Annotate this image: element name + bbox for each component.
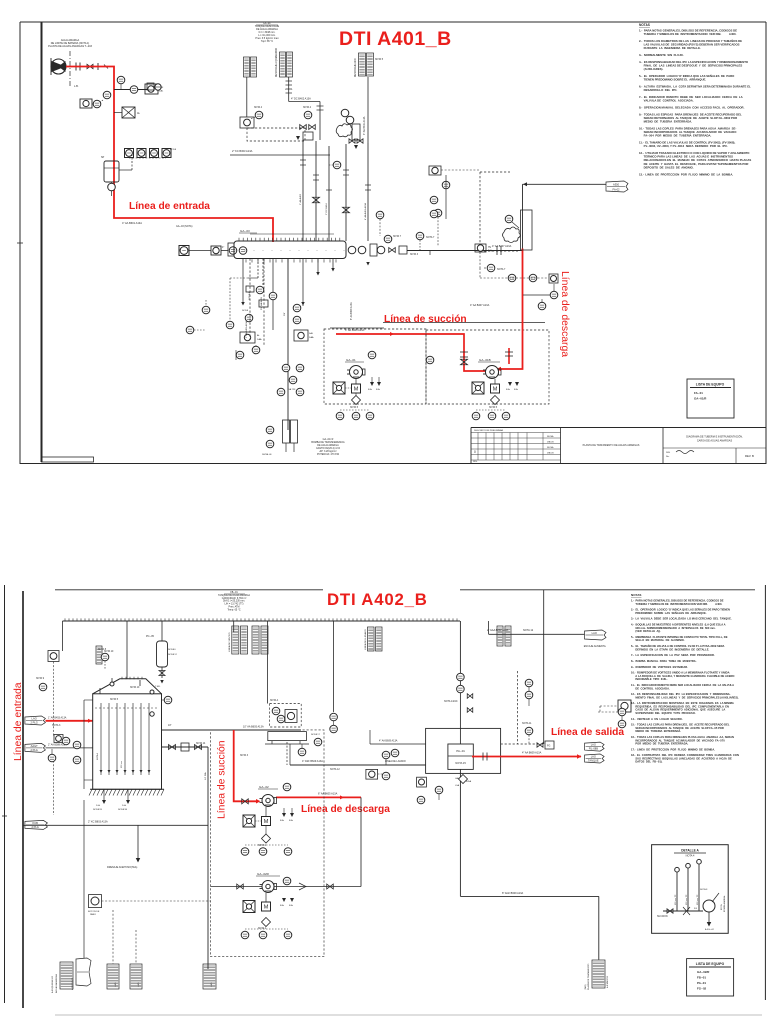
- svg-text:A ESQUEMA 102: A ESQUEMA 102: [51, 975, 54, 993]
- instrument HV: [475, 244, 486, 252]
- wire drop 3: [272, 259, 274, 331]
- wire red entrada tank: [46, 720, 93, 722]
- instrument NOTA11: [525, 727, 533, 735]
- svg-text:(VER DETALLE A)).: (VER DETALLE A)).: [631, 629, 661, 633]
- instrument NOTA7 vessel: [384, 235, 392, 243]
- instrument square row: [125, 149, 134, 158]
- svg-text:NOTA 93: NOTA 93: [93, 808, 103, 811]
- svg-text:NOTA 17: NOTA 17: [311, 733, 321, 736]
- svg-text:PLANTA DE TRATAMIENTO DE AGUAS: PLANTA DE TRATAMIENTO DE AGUAS AMARGAS: [583, 444, 640, 447]
- instrument LIT: [62, 737, 70, 745]
- svg-text:NOTA 8: NOTA 8: [98, 648, 107, 651]
- extra instrument a: [202, 306, 210, 314]
- wire tagC down: [367, 77, 369, 143]
- svg-text:GA--02R: GA--02R: [257, 872, 270, 876]
- sample station boxes: [147, 83, 154, 90]
- svg-text:LISTA DE EQUIPO: LISTA DE EQUIPO: [696, 962, 725, 966]
- title block page 1: [471, 427, 766, 429]
- package PA-01 outer: [426, 728, 501, 773]
- svg-text:GA--02/R: GA--02/R: [697, 970, 710, 974]
- instrument mid b: [293, 304, 301, 312]
- instrument under PA01: [417, 777, 427, 787]
- svg-text:2 PLG: 2 PLG: [30, 748, 37, 752]
- box mid b: [294, 330, 308, 341]
- svg-text:DTI A401_B: DTI A401_B: [339, 28, 452, 50]
- svg-text:GA--03: GA--03: [240, 229, 250, 233]
- svg-text:DAA: DAA: [309, 336, 314, 339]
- svg-text:M: M: [354, 387, 359, 393]
- svg-text:3.- LA VALVULA DEBE SER LO: 3.- LA VALVULA DEBE SER LOCALIZADA LO MA…: [631, 617, 732, 621]
- seal pot SP-01: [104, 161, 119, 182]
- suction GA-02R: [211, 886, 263, 888]
- svg-text:GA--03 (NOTA): GA--03 (NOTA): [176, 225, 193, 228]
- svg-text:6" AA B406 A13A: 6" AA B406 A13A: [345, 329, 365, 332]
- instrument NOTA8: [101, 653, 109, 661]
- svg-text:POTENCIA: 473 KW: POTENCIA: 473 KW: [317, 453, 340, 456]
- note circle mid: [416, 232, 424, 240]
- control valve station right: [521, 210, 533, 250]
- svg-text:Temp: 65 °C: Temp: 65 °C: [227, 608, 240, 611]
- svg-text:LINEA DE LLENADO: LINEA DE LLENADO: [364, 629, 367, 650]
- wire tagA down: [246, 77, 248, 117]
- inst square right edge: [618, 700, 631, 712]
- left relief instruments: [429, 166, 441, 175]
- wash line: [290, 764, 426, 766]
- extra mid dashes: [230, 277, 248, 279]
- flag connector desfogue: [606, 181, 628, 192]
- svg-text:NOTA: NOTA: [242, 309, 248, 312]
- relief cloud station: [341, 109, 349, 117]
- svg-text:6" AA B406 A13A: 6" AA B406 A13A: [350, 302, 353, 320]
- extra instrument b: [256, 286, 264, 294]
- svg-text:(TAD): (TAD): [584, 984, 587, 990]
- dashed box GA-01B: [426, 330, 549, 404]
- svg-text:NOTA 5: NOTA 5: [350, 406, 359, 409]
- svg-text:GA--01B: GA--01B: [479, 358, 491, 362]
- vessel right section: [348, 246, 356, 254]
- svg-text:MIENTO FINAL DE LAS LINEAS: MIENTO FINAL DE LAS LINEAS Y DE SERVICIO…: [631, 695, 739, 699]
- wire header drop red tee: [233, 621, 235, 632]
- wire PA01 center v: [459, 671, 461, 744]
- control valve station a: [300, 125, 307, 130]
- svg-text:GA 72F: GA 72F: [288, 388, 296, 391]
- svg-text:DESFOGUE A200: DESFOGUE A200: [354, 58, 357, 77]
- svg-text:DESCRIPCION PRELIMINAR: DESCRIPCION PRELIMINAR: [474, 429, 504, 432]
- svg-text:2" DC B404: 2" DC B404: [326, 203, 328, 215]
- extra dashes p2: [286, 742, 288, 765]
- svg-text:LAO: LAO: [210, 982, 213, 987]
- package PA-01 inner: [448, 744, 473, 769]
- page 2 border frame: [4, 585, 6, 1003]
- diamond GA-01: [352, 396, 361, 405]
- wire seal pot to line: [119, 169, 132, 171]
- instrument NOTA4 b: [304, 111, 312, 119]
- red stub pump up: [508, 348, 510, 364]
- svg-text:B.A.: B.A.: [368, 388, 373, 391]
- svg-text:B.A.: B.A.: [280, 819, 285, 822]
- svg-text:No.: No.: [666, 456, 670, 458]
- svg-text:Top= 65 °C: Top= 65 °C: [261, 40, 273, 43]
- flag inlet 2: [25, 743, 46, 752]
- flag salida 1: [585, 742, 605, 751]
- svg-text:NOTA 5: NOTA 5: [375, 58, 384, 61]
- main suction header: [407, 250, 523, 252]
- instrument above PA01: [457, 673, 465, 681]
- instrument PI pair top: [330, 713, 338, 721]
- svg-text:2" KC B803 A13A: 2" KC B803 A13A: [88, 821, 108, 824]
- svg-text:NOTA 13/AC: NOTA 13/AC: [444, 700, 458, 703]
- motor GA-02: [262, 817, 271, 826]
- svg-text:NOTA 12: NOTA 12: [330, 768, 340, 771]
- svg-text:DESFOGUE A QUEMADOR: DESFOGUE A QUEMADOR: [275, 48, 278, 77]
- svg-text:NOTA 4: NOTA 4: [96, 752, 99, 760]
- svg-text:2 PLG: 2 PLG: [30, 721, 37, 725]
- box station left: [240, 117, 254, 128]
- svg-text:4" AA B401 A13A: 4" AA B401 A13A: [364, 203, 367, 220]
- flag salida 2: [585, 754, 605, 763]
- support bracket: [268, 732, 307, 741]
- wire drop 1: [242, 259, 244, 301]
- crossed box GA-01: [333, 382, 345, 394]
- svg-text:T.SR.: T.SR.: [155, 686, 161, 688]
- svg-text:DEFINIDO EN LA ETAPA DE I: DEFINIDO EN LA ETAPA DE INGENIERIA DE DE…: [631, 647, 709, 651]
- boton de paro: [89, 895, 102, 908]
- motor GA-01B: [491, 384, 500, 393]
- svg-text:FECHA: FECHA: [547, 446, 554, 449]
- svg-text:PARO: PARO: [90, 913, 96, 916]
- tank FB-01 ground hatch: [90, 788, 164, 790]
- motor GA-02R: [262, 902, 271, 911]
- svg-text:NOTA 5: NOTA 5: [489, 406, 498, 409]
- svg-text:1" AA B453 A13A: 1" AA B453 A13A: [48, 717, 67, 720]
- arrows GA-01 drains: [370, 382, 374, 386]
- bottom flag a: [107, 964, 119, 989]
- svg-text:FA-02: FA-02: [613, 188, 620, 192]
- svg-text:DETALLE A: DETALLE A: [681, 849, 699, 853]
- wire drop flag to valve: [522, 184, 524, 248]
- vertical pipe bundle to vessel: [302, 140, 304, 241]
- svg-text:L.B.: L.B.: [74, 84, 79, 88]
- svg-text:A.B MW-P02: A.B MW-P02: [606, 975, 609, 988]
- svg-text:NOTA 3: NOTA 3: [52, 724, 61, 727]
- svg-text:PC--05: PC--05: [146, 635, 155, 638]
- svg-text:900 mm: 900 mm: [121, 760, 123, 768]
- svg-text:BOMBA MANUAL: BOMBA MANUAL: [723, 895, 726, 912]
- instrument NOTA7 right: [487, 264, 495, 272]
- instrument trail 3: [145, 84, 158, 94]
- svg-text:2" KC B303 A13A: 2" KC B303 A13A: [232, 149, 253, 153]
- svg-text:LSA: LSA: [455, 784, 460, 787]
- dashed box GA-02: [211, 730, 325, 957]
- bottom flag c: [203, 964, 216, 989]
- instrument small pair: [48, 754, 56, 762]
- svg-text:NOTA 15: NOTA 15: [455, 761, 466, 765]
- extra circles bottom: [266, 426, 274, 434]
- wire header left drop: [62, 621, 64, 651]
- wire tank drain down: [83, 800, 85, 958]
- svg-text:PLANTA DE TRATAMIENTO: PLANTA DE TRATAMIENTO: [587, 963, 590, 990]
- tag label C: [359, 53, 366, 76]
- svg-text:DAL: DAL: [488, 250, 493, 253]
- svg-text:LAO: LAO: [591, 755, 596, 759]
- svg-text:M: M: [264, 819, 269, 825]
- FG small station: [537, 743, 543, 748]
- wire header drop tank: [126, 621, 128, 679]
- svg-text:TIENEN PREDOMINIO SOBRE EL AR: TIENEN PREDOMINIO SOBRE EL ARRANQUE.: [639, 78, 706, 82]
- tank drain arrows: [103, 789, 105, 800]
- wire PA01 outlet down: [460, 895, 598, 897]
- svg-text:NOTA 1B: NOTA 1B: [118, 808, 128, 811]
- tag label B: [280, 52, 286, 77]
- svg-text:A350: A350: [613, 183, 620, 187]
- instrument right col: [550, 291, 558, 299]
- svg-text:4": 4": [222, 246, 224, 249]
- svg-text:3.- NORMALMENTE SIN FLUJO.: 3.- NORMALMENTE SIN FLUJO.: [639, 53, 684, 57]
- diamond GA-01B: [491, 396, 500, 405]
- svg-text:PA--01: PA--01: [697, 981, 706, 985]
- instrument bottom GA-02R: [241, 931, 249, 939]
- svg-text:LAH: LAH: [455, 777, 460, 780]
- crossed box GA-01B: [472, 382, 484, 394]
- svg-text:DAA: DAA: [257, 338, 262, 341]
- svg-text:POR MEDIO DE TUBERIA ENTER: POR MEDIO DE TUBERIA ENTERRADA.: [631, 742, 689, 746]
- arrows GA-01B drains: [508, 382, 512, 386]
- dashed station rect: [247, 128, 305, 141]
- outlet elbow down: [207, 747, 209, 969]
- svg-text:A DRENAJE: A DRENAJE: [71, 977, 74, 990]
- svg-text:B.A.: B.A.: [289, 904, 294, 907]
- svg-text:DATOS DEL FB--01).: DATOS DEL FB--01).: [631, 760, 663, 764]
- svg-text:NOTA 2: NOTA 2: [258, 844, 267, 847]
- svg-text:SP: SP: [101, 156, 105, 159]
- svg-text:LAO: LAO: [137, 982, 140, 987]
- svg-text:NOTAS: NOTAS: [639, 23, 650, 27]
- svg-text:FG--02: FG--02: [697, 987, 707, 991]
- extra circle right: [618, 708, 626, 716]
- arrows GA-02: [282, 813, 286, 817]
- svg-text:NOTA 5: NOTA 5: [110, 698, 119, 701]
- flag encaje alimenta: [585, 630, 607, 640]
- wire red succion: [336, 334, 487, 371]
- svg-text:4" AA B401 A13A: 4" AA B401 A13A: [363, 116, 366, 135]
- lista de equipo box p2: [687, 959, 734, 996]
- svg-text:TUBERIA Y SIMBOLOS DE INSTRUM: TUBERIA Y SIMBOLOS DE INSTRUMENTACION VE…: [639, 32, 737, 36]
- instrument PG trail 2: [130, 86, 138, 94]
- svg-text:M: M: [493, 387, 498, 393]
- svg-text:DURANTE LA INGENIERIA DE D: DURANTE LA INGENIERIA DE DETALLE.: [639, 46, 701, 50]
- svg-text:NOTA 7: NOTA 7: [426, 236, 435, 239]
- instrument mid a: [245, 314, 253, 322]
- wire right long vline: [543, 590, 545, 744]
- svg-text:NOTA 4: NOTA 4: [254, 106, 263, 109]
- wire red salida: [472, 756, 581, 758]
- wire inlet 2 to tank: [46, 747, 93, 749]
- instrument NOTA4 a: [255, 111, 263, 119]
- svg-text:NOTA 10: NOTA 10: [130, 686, 140, 689]
- tank FB-01 roof: [93, 679, 162, 694]
- svg-text:NOTA: NOTA: [170, 148, 176, 151]
- svg-text:SUCCION: SUCCION: [657, 916, 668, 918]
- svg-text:9.- ROMPEDOR DE VORTICES E: 9.- ROMPEDOR DE VORTICES ESTANDAR.: [631, 665, 688, 669]
- svg-text:DTI A402_B: DTI A402_B: [327, 590, 428, 609]
- svg-text:TUBERIA Y SIMBOLOS DE INSTRUM: TUBERIA Y SIMBOLOS DE INSTRUMENTACION VE…: [631, 602, 722, 606]
- svg-text:485A: 485A: [466, 780, 472, 783]
- svg-text:NOTA 12: NOTA 12: [168, 653, 178, 656]
- drops left of center: [249, 259, 251, 341]
- svg-text:Línea de entrada: Línea de entrada: [129, 201, 210, 212]
- svg-text:GA--02: GA--02: [259, 785, 269, 789]
- instrument bottom GA-01B: [472, 412, 480, 420]
- svg-text:14" DIA: 14" DIA: [204, 772, 207, 780]
- svg-text:8.- BOMBA MANUAL PARA TOMA: 8.- BOMBA MANUAL PARA TOMA DE MUESTRA.: [631, 659, 697, 663]
- small box on drop: [259, 300, 268, 307]
- flag planta tratamiento: [592, 960, 605, 988]
- wire into PA01 mid: [370, 743, 426, 745]
- svg-text:Línea de entrada: Línea de entrada: [13, 682, 24, 761]
- svg-text:B.A.: B.A.: [289, 819, 294, 822]
- svg-text:LAO: LAO: [114, 982, 117, 987]
- svg-text:900 mm T.T.: 900 mm T.T.: [675, 894, 677, 905]
- wire red entrada: [66, 67, 273, 243]
- svg-text:D.A.: D.A.: [122, 804, 127, 807]
- svg-text:DRENAJE ACEITOSO(TEA): DRENAJE ACEITOSO(TEA): [107, 866, 137, 869]
- svg-text:FG: FG: [547, 745, 550, 748]
- svg-text:NOTA A: NOTA A: [270, 699, 279, 702]
- svg-text:B.A.: B.A.: [280, 904, 285, 907]
- svg-text:6" AA B605 A13A: 6" AA B605 A13A: [318, 793, 338, 796]
- valves under station: [349, 139, 355, 144]
- drain branch: [137, 825, 139, 858]
- tag label A: [244, 57, 250, 77]
- svg-text:10": 10": [168, 724, 172, 727]
- valve on salida: [482, 753, 484, 761]
- svg-text:B.A.: B.A.: [506, 388, 511, 391]
- dashed box nota A: [270, 704, 302, 728]
- svg-text:4" AA B407 A13A: 4" AA B407 A13A: [492, 245, 512, 248]
- dashed box GA-01: [324, 329, 426, 404]
- svg-text:SUPERVISION DEL EQUIPO TUTE: SUPERVISION DEL EQUIPO TUTE PROCESO.: [631, 711, 696, 715]
- instrument LG left: [48, 651, 59, 662]
- inline box instrument: [122, 107, 135, 118]
- svg-text:8.- OPERACION MANUAL DELEGAD: 8.- OPERACION MANUAL DELEGADA CON ACCESO…: [639, 106, 745, 110]
- instrument PI trail 1: [114, 89, 148, 91]
- svg-text:900 mm T.T.: 900 mm T.T.: [697, 894, 699, 905]
- svg-text:FB--01: FB--01: [697, 976, 706, 980]
- drain header: [23, 824, 208, 826]
- tank internal float: [95, 707, 159, 709]
- page 1 border frame: [20, 21, 766, 23]
- svg-text:B.A.: B.A.: [376, 388, 381, 391]
- tag labels far left: [96, 646, 102, 664]
- svg-text:FIL-08B: FIL-08B: [589, 747, 598, 751]
- svg-text:NOTA 8: NOTA 8: [700, 888, 708, 891]
- svg-text:GA--01/R: GA--01/R: [694, 397, 707, 401]
- instrument pair 525: [525, 679, 533, 687]
- dashed wires right: [479, 172, 481, 251]
- bottom label block left: [60, 962, 73, 989]
- crossed box GA-02: [243, 815, 255, 827]
- instrument pair on dash: [508, 274, 516, 282]
- svg-text:TANQUE: TANQUE: [588, 759, 599, 763]
- svg-text:MEDIO DE TUBERIA ENTERRADA.: MEDIO DE TUBERIA ENTERRADA.: [631, 729, 681, 733]
- svg-text:AAGT: AAGT: [31, 744, 38, 748]
- instrument below lavado: [366, 769, 378, 779]
- instrument mid c: [236, 351, 244, 359]
- arrows GA-02R: [282, 898, 286, 902]
- wire header drop notaA: [267, 621, 269, 704]
- tank side circles: [164, 696, 172, 704]
- svg-text:GA--01: GA--01: [346, 358, 356, 362]
- wire drop 2: [257, 259, 259, 279]
- svg-text:Línea de succión: Línea de succión: [217, 740, 228, 819]
- svg-text:14.- VENTEAR A UN LUGAR S: 14.- VENTEAR A UN LUGAR SEGURO.: [631, 717, 683, 721]
- svg-text:8" AGF B609 A13A: 8" AGF B609 A13A: [502, 892, 524, 895]
- svg-text:HV: HV: [488, 247, 492, 249]
- instrument cluster center: [282, 364, 290, 372]
- instrument left vessel a: [179, 246, 189, 256]
- svg-text:M: M: [264, 905, 269, 911]
- discharge GA-02R: [274, 886, 361, 888]
- svg-text:LINEA DE VENTEO: LINEA DE VENTEO: [228, 632, 231, 652]
- svg-text:NOTA 7: NOTA 7: [393, 235, 402, 238]
- instrument trail 4: [103, 91, 111, 99]
- wire red descarga v: [501, 249, 523, 370]
- wire red succion 2: [234, 730, 256, 801]
- svg-text:4" AA B601 A13A: 4" AA B601 A13A: [122, 221, 142, 225]
- valve succion ga02: [242, 799, 249, 804]
- svg-text:MEDIO DE TUBERIA ENTERRADA.: MEDIO DE TUBERIA ENTERRADA.: [639, 120, 692, 124]
- svg-text:0: 0: [474, 450, 476, 454]
- svg-text:NOTA 14: NOTA 14: [196, 742, 206, 745]
- svg-text:NOTA 3: NOTA 3: [410, 253, 419, 256]
- crossed box GA-02R: [243, 901, 255, 913]
- tank FB-01 internals: [100, 703, 102, 775]
- svg-text:Línea de descarga: Línea de descarga: [301, 804, 390, 815]
- svg-text:D.A.: D.A.: [96, 804, 101, 807]
- svg-text:DIB.: DIB.: [666, 452, 671, 454]
- flag inlet 1: [25, 716, 46, 725]
- instrument left vessel b: [229, 247, 237, 255]
- svg-text:LINEA DE LAVADO: LINEA DE LAVADO: [385, 760, 406, 763]
- svg-text:NOTA 9: NOTA 9: [36, 677, 45, 680]
- vessel GA-03 manifold: [228, 243, 234, 256]
- svg-text:NOTA 11: NOTA 11: [522, 722, 532, 725]
- svg-text:DIAGRAMA DE TUBERIA E INST: DIAGRAMA DE TUBERIA E INSTRUMENTACIÓN,: [686, 436, 743, 439]
- instrument square right: [549, 274, 558, 283]
- svg-text:Línea de salida: Línea de salida: [551, 727, 624, 738]
- svg-text:ENCAJE ALIMENTA.: ENCAJE ALIMENTA.: [584, 645, 607, 648]
- suction header pipe: [162, 729, 302, 731]
- wire red descarga 2: [276, 796, 361, 798]
- svg-text:DIBUJO: DIBUJO: [547, 453, 554, 455]
- svg-text:4" DC B402 A13A: 4" DC B402 A13A: [291, 98, 311, 101]
- box mid a: [240, 332, 255, 343]
- svg-text:NOTA 4: NOTA 4: [686, 855, 695, 858]
- svg-text:NOTAS: NOTAS: [631, 593, 641, 597]
- tank outlet valves: [162, 746, 209, 748]
- svg-text:7.- LA ESPECIFICACION DE L: 7.- LA ESPECIFICACION DE LA PSV SERA POR…: [631, 653, 715, 657]
- svg-text:B.A.: B.A.: [514, 388, 519, 391]
- wire into vessel left: [189, 250, 211, 252]
- instrument NOTA9: [39, 683, 47, 691]
- svg-text:DE CONTROL ASOCIADA.: DE CONTROL ASOCIADA.: [631, 686, 670, 690]
- svg-text:NOTA 6: NOTA 6: [168, 648, 176, 651]
- instrument bottom GA-02: [241, 848, 249, 856]
- svg-text:LAO: LAO: [32, 717, 37, 721]
- svg-text:PA--01: PA--01: [456, 749, 465, 753]
- svg-text:NOTA 4: NOTA 4: [303, 106, 312, 109]
- svg-text:2" AA B403: 2" AA B403: [299, 193, 302, 205]
